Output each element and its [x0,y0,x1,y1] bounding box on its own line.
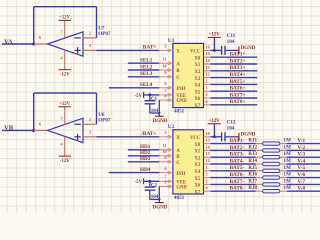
svg-text:INH: INH [176,87,185,92]
svg-text:DGND: DGND [153,119,168,124]
resistor RJ1 left stub [256,142,263,144]
svg-text:X4: X4 [194,84,200,89]
svg-text:OP07: OP07 [98,31,111,37]
node junction -5V C1 [148,93,151,96]
pin 9 stub U2 [159,161,173,163]
resistor RJ3 left stub [256,156,263,158]
svg-text:BAT1-: BAT1- [230,138,245,144]
op-amp U6 triangle [48,118,84,142]
power +12V U7 [59,19,71,21]
wire net V-8 [287,190,320,193]
svg-text:U7: U7 [98,25,105,31]
svg-text:+12V: +12V [209,119,221,124]
svg-text:104: 104 [227,125,235,131]
pin 14 stub U2 [204,149,211,151]
resistor RJ5 left stub [256,170,263,172]
svg-text:GND: GND [176,99,187,104]
svg-text:BAT8-: BAT8- [230,186,245,192]
pin 11 stub U2 [159,149,173,151]
wire net SEL4 [109,86,160,89]
wire net SEL1 [128,62,160,65]
pin 3 end ring U1 [168,49,171,52]
capacitor C1 bottom lead [149,104,152,113]
wire C2 to ground drop [150,198,160,201]
svg-text:11: 11 [162,143,166,148]
svg-text:SEL3: SEL3 [140,71,153,77]
resistor RJ4 left stub [256,163,263,165]
op-amp U7 pin 6 stub [34,43,48,45]
resistor RJ8 right stub [280,190,287,192]
power +12V stem [213,124,216,137]
svg-text:VEE: VEE [176,181,186,186]
wire feedback right vertical U6 [95,93,98,124]
wire net BAT8+ [210,103,257,106]
svg-text:+12V: +12V [59,16,71,21]
pin 11 end ring U2 [168,149,171,152]
capacitor C2 plates [145,187,156,190]
wire net BAT3+ [210,69,257,72]
pin 5 stub U2 [204,177,211,179]
node junction VCC [213,135,216,138]
node junction VA U7 pin6 [32,42,35,45]
resistor RJ6 body [263,176,280,179]
svg-text:12: 12 [205,72,209,77]
wire net V-7 [287,183,320,186]
op-amp U7 pin 2 stub [83,37,97,39]
pin 12 stub U1 [204,76,211,78]
svg-text:2: 2 [89,31,91,36]
pin 12 stub U2 [204,163,211,165]
svg-text:DGND: DGND [153,206,168,211]
pin 10 stub U2 [159,155,173,157]
wire net V-4 [287,163,320,166]
node junction VB U6 pin6 [32,129,35,132]
svg-text:X3: X3 [194,163,200,168]
wire net BAT2+ [210,63,257,66]
pin 2 stub U1 [204,97,211,99]
svg-text:BAT3-: BAT3- [230,152,245,158]
wire net BAT7- to resistor RJ7 [210,183,255,186]
node junction ground drop [158,198,160,200]
wire feedback left vertical U7 [32,7,35,44]
pin 11 stub U1 [159,62,173,64]
wire net /BAT+ to U2 pin3 [97,135,160,138]
resistor RJ2 left stub [256,149,263,151]
op-amp U7 plus input symbol [75,47,81,53]
power +12V stem [213,37,216,50]
wire C11 to DGND [225,49,239,52]
op-amp U6 pin 6 stub [34,129,48,131]
resistor RJ3 right stub [280,156,287,158]
power +12V bar [208,36,221,38]
svg-text:4051: 4051 [174,108,185,114]
svg-text:VB: VB [4,125,14,132]
svg-text:BAT4+: BAT4+ [230,72,246,78]
svg-text:C2: C2 [151,183,158,188]
wire C1 to ground drop [150,112,160,115]
wire C12 to DGND [225,136,239,139]
resistor RJ5 body [263,169,280,172]
svg-text:1M: 1M [283,185,291,191]
resistor RJ1 body [263,142,280,145]
resistor RJ7 body [263,183,280,186]
svg-text:BAT+: BAT+ [143,45,157,51]
wire GND pin drop U1 [158,100,161,116]
svg-text:X5: X5 [194,177,200,182]
node junction -5V C2 [148,180,151,183]
wire net BAT1- to resistor RJ1 [210,142,255,145]
capacitor C2 bottom lead [149,190,152,199]
svg-text:VCC: VCC [190,50,201,55]
resistor RJ5 right stub [280,170,287,172]
node junction ground drop [158,112,160,114]
pin 16 stub U2 [204,136,211,138]
svg-text:X5: X5 [194,90,200,95]
svg-text:1M: 1M [283,138,291,144]
op-amp U7 pin 7 supply stub [64,20,66,38]
svg-text:X0: X0 [194,143,200,148]
wire net HD4 [109,171,160,174]
svg-text:V-3: V-3 [297,152,305,158]
svg-text:RJ3: RJ3 [248,152,257,157]
svg-text:X7: X7 [194,104,200,109]
wire net V-3 [287,156,320,159]
svg-text:X1: X1 [194,63,200,68]
wire net BAT5+ [210,83,257,86]
svg-text:RJ4: RJ4 [248,159,257,164]
svg-text:HD4: HD4 [140,167,151,173]
wire net BAT2- to resistor RJ2 [210,149,255,152]
capacitor C11 plates [222,46,225,55]
svg-text:BAT2+: BAT2+ [230,58,246,64]
svg-text:V-5: V-5 [297,165,305,171]
svg-text:X6: X6 [194,97,200,102]
wire net BAT7+ [210,97,257,100]
svg-text:B: B [176,69,179,74]
op-amp U6 pin 3 stub [83,136,97,138]
svg-text:U1: U1 [168,38,175,44]
pin 16 stub U1 [204,49,211,51]
svg-text:RJ8: RJ8 [248,186,257,191]
svg-text:RJ7: RJ7 [248,179,257,184]
svg-text:-12V: -12V [60,159,70,164]
wire net BAT5- to resistor RJ5 [210,169,255,172]
IC U2 4051 body [173,130,204,194]
svg-text:V-1: V-1 [297,138,305,144]
pin 10 stub U1 [159,69,173,71]
svg-text:X2: X2 [194,156,200,161]
svg-text:VA: VA [4,38,13,45]
svg-text:SEL4: SEL4 [140,82,153,88]
pin 3 stub U2 [159,136,173,138]
svg-text:1: 1 [205,78,207,83]
pin 4 stub U1 [204,104,211,106]
IC U1 4051 body [173,43,204,107]
svg-text:12: 12 [205,158,209,163]
svg-text:-5V: -5V [134,94,142,99]
svg-text:RJ5: RJ5 [248,166,257,171]
pin 10 end ring U1 [168,69,171,72]
op-amp U7 pin 4 supply stub [64,50,66,70]
pin 13 stub U1 [204,56,211,58]
pin 15 stub U1 [204,70,211,72]
resistor RJ6 right stub [280,176,287,178]
pin 5 stub U1 [204,90,211,92]
pin 8 end ring U1 [168,99,171,102]
wire -5V to VEE U1 [144,94,160,97]
pin 3 end ring U2 [168,136,171,139]
pin 7 end ring U1 [168,94,171,97]
svg-text:BAT5-: BAT5- [230,165,245,171]
pin 1 stub U2 [204,170,211,172]
svg-text:BAT7-: BAT7- [230,179,245,185]
svg-text:1M: 1M [283,144,291,150]
svg-text:4051: 4051 [174,195,185,201]
wire net V-1 [287,142,320,145]
ground DGND symbol [155,202,164,204]
svg-text:-12V: -12V [60,73,70,78]
svg-text:BAT7+: BAT7+ [230,92,246,98]
svg-text:HD2: HD2 [140,150,151,156]
svg-text:U2: U2 [168,124,175,130]
svg-text:BAT6-: BAT6- [230,172,245,178]
resistor RJ1 right stub [280,142,287,144]
power -12V U7 [59,69,71,71]
wire net BAT4+ [210,76,257,79]
resistor RJ8 left stub [256,190,263,192]
svg-text:RJ6: RJ6 [248,173,257,178]
pin 2 stub U2 [204,183,211,185]
pin 3 stub U1 [159,49,173,51]
capacitor C12 plates [222,132,225,141]
svg-text:BAT2-: BAT2- [230,145,245,151]
wire VCC U2 [210,135,221,138]
pin 9 end ring U2 [168,161,171,164]
svg-text:BAT3+: BAT3+ [230,65,246,71]
svg-text:BAT1+: BAT1+ [230,52,246,58]
svg-text:INH: INH [176,172,185,177]
pin 8 stub U1 [159,99,173,101]
resistor RJ7 right stub [280,183,287,185]
pin 10 end ring U2 [168,155,171,158]
wire net BAT3- to resistor RJ3 [210,156,255,159]
svg-text:BAT6+: BAT6+ [230,86,246,92]
capacitor C1 top lead [149,95,152,101]
svg-text:X6: X6 [194,184,200,189]
wire net HD2 [128,154,160,157]
resistor RJ8 body [263,190,280,193]
pin 15 stub U2 [204,156,211,158]
op-amp U7 triangle [48,32,84,56]
pin 7 stub U2 [159,180,173,182]
svg-text:X4: X4 [194,170,200,175]
op-amp U6 pin 7 supply stub [64,107,66,125]
pin 14 stub U1 [204,63,211,65]
ground DGND bar [238,46,240,54]
node junction VCC [213,49,216,52]
pin 4 stub U2 [204,190,211,192]
svg-text:BAT4-: BAT4- [230,158,245,164]
svg-text:X1: X1 [194,150,200,155]
wire net BAT8- to resistor RJ8 [210,190,255,193]
svg-text:2: 2 [205,92,207,97]
power -5V [143,92,145,98]
wire VCC U1 [210,49,221,52]
svg-text:V-2: V-2 [297,145,305,151]
svg-text:DGND: DGND [241,46,256,51]
svg-text:11: 11 [162,57,166,62]
wire net V-2 [287,149,320,152]
svg-text:BAT5+: BAT5+ [230,79,246,85]
svg-text:C11: C11 [227,33,236,39]
capacitor C1 plates [145,101,156,104]
svg-text:1M: 1M [283,165,291,171]
resistor RJ4 body [263,162,280,165]
pin 6 end ring U2 [168,171,171,174]
pin 9 end ring U1 [168,76,171,79]
wire GND pin drop U2 [158,186,161,202]
svg-text:RJ1: RJ1 [248,139,257,144]
svg-text:C12: C12 [227,120,236,126]
op-amp U7 pin 3 stub [83,49,97,51]
pin 6 stub U1 [159,87,173,89]
svg-text:V-6: V-6 [297,172,305,178]
wire net HD1 [128,148,160,151]
power -5V [143,178,145,184]
wire net V-5 [287,169,320,172]
svg-text:X2: X2 [194,70,200,75]
pin 8 end ring U2 [168,185,171,188]
resistor RJ3 body [263,156,280,159]
svg-text:1M: 1M [283,178,291,184]
svg-text:VEE: VEE [176,94,186,99]
pin 13 stub U2 [204,143,211,145]
wire net BAT6+ [210,90,257,93]
wire net HD3 [128,160,160,163]
svg-text:1M: 1M [283,172,291,178]
wire net V-6 [287,176,320,179]
svg-text:-5V: -5V [134,180,142,185]
resistor RJ6 left stub [256,176,263,178]
svg-text:DGND: DGND [241,133,256,138]
svg-text:SEL1: SEL1 [140,58,153,64]
wire net BAT4- to resistor RJ4 [210,163,255,166]
wire net SEL2 [128,69,160,72]
resistor RJ2 right stub [280,149,287,151]
svg-text:V-7: V-7 [297,179,305,185]
svg-text:X0: X0 [194,56,200,61]
wire feedback left vertical U6 [32,93,35,130]
svg-text:X3: X3 [194,77,200,82]
resistor RJ7 left stub [256,183,263,185]
pin 1 stub U1 [204,83,211,85]
pin 11 end ring U1 [168,62,171,65]
svg-text:OP07: OP07 [98,117,111,123]
svg-text:V-4: V-4 [297,158,305,164]
resistor RJ2 body [263,149,280,152]
svg-text:1M: 1M [283,151,291,157]
svg-text:B: B [176,155,179,160]
svg-text:X7: X7 [194,190,200,195]
wire net BAT+ to U1 pin3 [97,49,160,52]
wire -5V to VEE U2 [144,180,160,183]
pin 6 end ring U1 [168,87,171,90]
svg-text:/BAT+: /BAT+ [140,131,156,137]
svg-text:BAT8+: BAT8+ [230,99,246,105]
ground DGND bar [238,133,240,141]
resistor RJ4 right stub [280,163,287,165]
wire VB input U6 [2,129,34,132]
op-amp U6 pin 4 supply stub [64,136,66,156]
capacitor C2 top lead [149,181,152,187]
svg-text:104: 104 [227,39,235,45]
wire net SEL3 [128,75,160,78]
wire net BAT6- to resistor RJ6 [210,176,255,179]
svg-text:2: 2 [205,178,207,183]
wire feedback top rail U6 [34,92,97,95]
pin 9 stub U1 [159,76,173,78]
op-amp U6 pin 2 stub [83,123,97,125]
svg-text:GND: GND [176,186,187,191]
op-amp U6 minus input symbol [75,123,81,126]
svg-text:C1: C1 [151,97,158,102]
svg-text:HD1: HD1 [140,144,151,150]
op-amp U7 minus input symbol [75,37,81,40]
power +12V bar [208,123,221,125]
power +12V U6 [59,106,71,108]
wire feedback right vertical U7 [95,7,98,38]
svg-text:VCC: VCC [190,136,201,141]
wire net BAT1+ [210,56,257,59]
pin 7 end ring U2 [168,180,171,183]
op-amp U6 plus input symbol [75,134,81,140]
wire VA input U7 [2,43,34,46]
svg-text:1: 1 [205,165,207,170]
pin 7 stub U1 [159,94,173,96]
wire feedback top rail U7 [34,5,97,8]
pin 6 stub U2 [159,172,173,174]
svg-text:2: 2 [89,117,91,122]
svg-text:U6: U6 [98,112,105,118]
svg-text:SEL2: SEL2 [140,64,153,70]
svg-text:+12V: +12V [209,33,221,38]
svg-text:1M: 1M [283,158,291,164]
power -12V U6 [59,155,71,157]
svg-text:RJ2: RJ2 [248,145,257,150]
ground DGND symbol [155,115,164,117]
svg-text:HD3: HD3 [140,156,151,162]
svg-text:V-8: V-8 [297,186,305,192]
svg-text:+12V: +12V [59,102,71,107]
pin 8 stub U2 [159,185,173,187]
